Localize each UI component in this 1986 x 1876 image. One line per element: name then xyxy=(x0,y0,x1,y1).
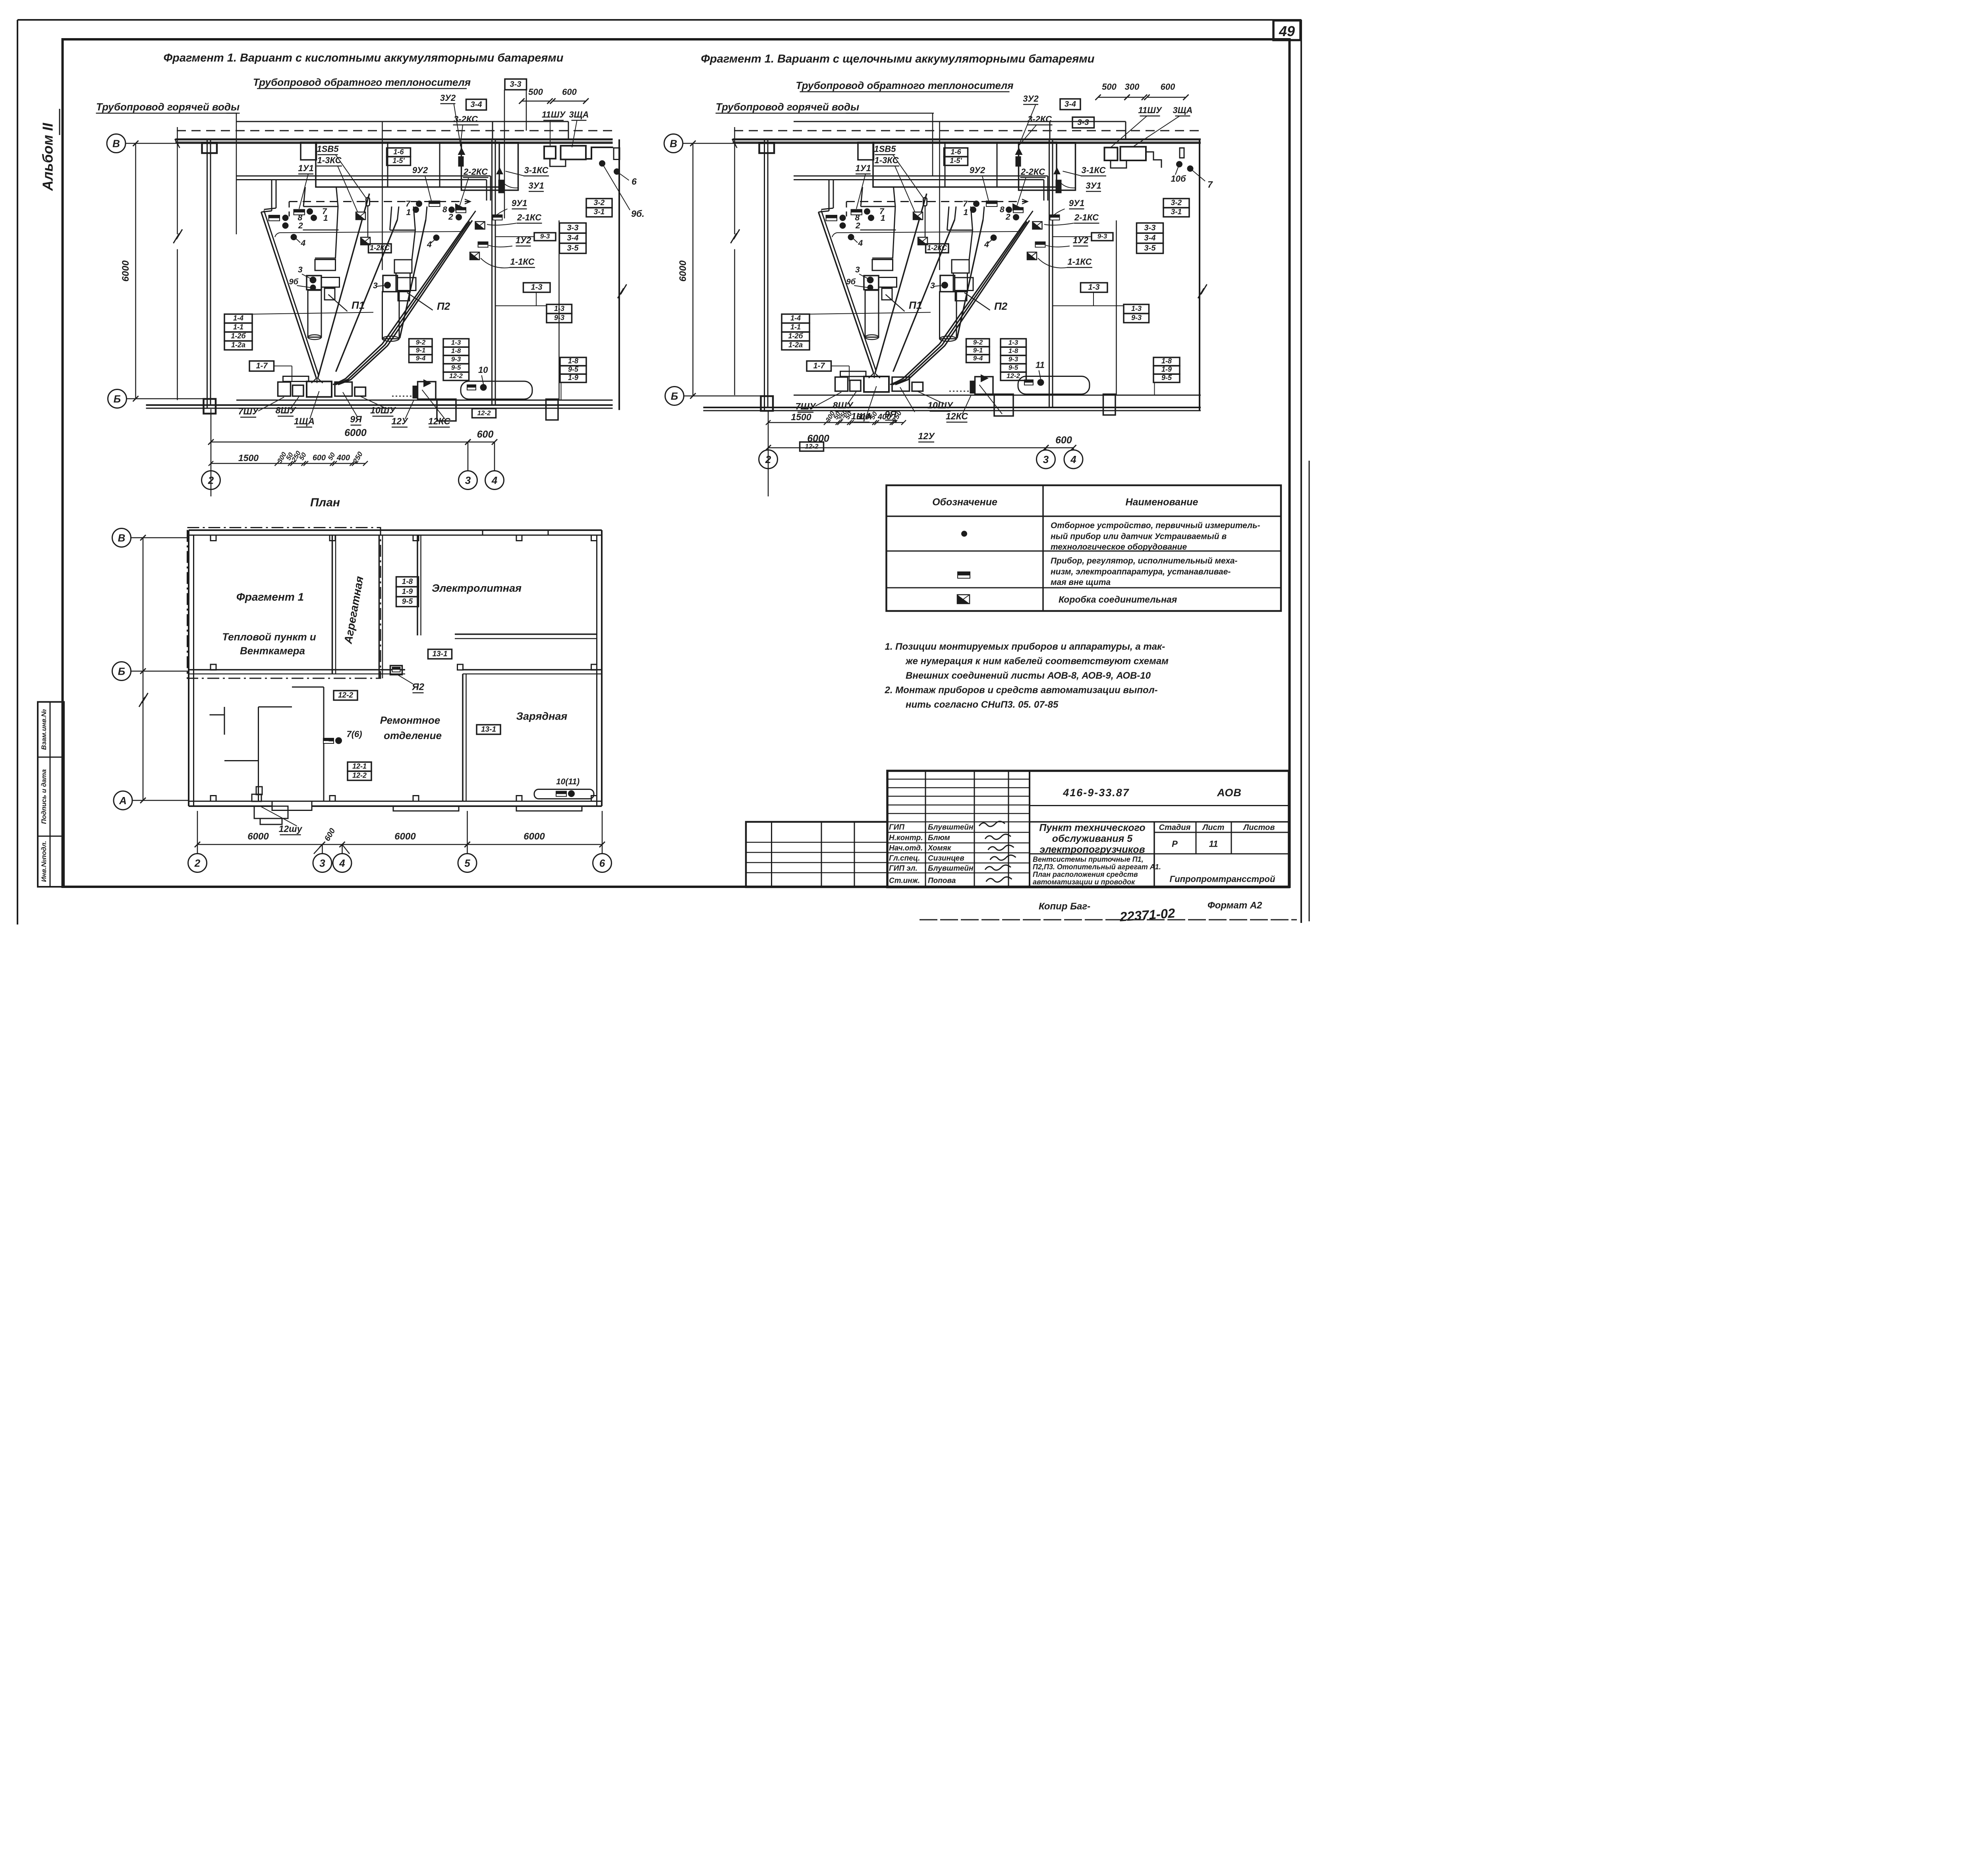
svg-text:Инв.№подл.: Инв.№подл. xyxy=(40,841,48,882)
left fragment: tank body xyxy=(461,381,532,399)
left fragment: P2 throat right xyxy=(413,207,415,230)
left fragment: P1 leader 9b xyxy=(297,286,311,288)
svg-text:1: 1 xyxy=(964,208,968,217)
right fragment: wallbox links xyxy=(1111,160,1126,168)
right fragment: leader 1SchA xyxy=(867,386,877,414)
left fragment: box 1-2KS xyxy=(369,244,392,253)
title block: grid col A xyxy=(924,771,927,887)
svg-text:600: 600 xyxy=(477,429,494,440)
left fragment: P1 duct xyxy=(315,260,336,271)
right fragment: wallbox 3SchA xyxy=(1121,147,1146,161)
svg-text:9-5: 9-5 xyxy=(402,598,413,606)
left fragment: pill 1SB5 xyxy=(366,198,370,206)
left fragment: tri 3-1KS dev xyxy=(496,167,503,174)
left fragment: bottom wall line2 xyxy=(146,407,613,409)
left fragment: P2 cylinder xyxy=(383,292,400,339)
left fragment: leader 4b xyxy=(430,240,435,244)
right fragment: leader 1U2 xyxy=(1046,245,1070,247)
left fragment: right dot1 xyxy=(599,160,605,167)
right fragment: P1 throat left xyxy=(861,187,863,207)
svg-text:7ШУ: 7ШУ xyxy=(796,401,817,411)
svg-text:1-3: 1-3 xyxy=(451,339,461,346)
svg-text:1У1: 1У1 xyxy=(298,163,313,173)
right fragment: wall step right xyxy=(1146,152,1161,168)
title block: grid col D xyxy=(1028,771,1031,887)
floor plan: axis V line xyxy=(131,537,189,539)
floor plan: box 189, 1-9, 9-5 xyxy=(396,577,419,587)
svg-text:600: 600 xyxy=(1161,82,1175,92)
svg-text:Ст.инж.: Ст.инж. xyxy=(889,877,920,885)
right fragment: hot water pipe2 xyxy=(794,179,1044,181)
right fragment: right leader2 xyxy=(1190,169,1206,181)
floor plan: partition v1 xyxy=(257,707,260,801)
right fragment: diag top ext xyxy=(1024,211,1033,223)
svg-text:8ШУ: 8ШУ xyxy=(276,405,297,415)
svg-text:1-6: 1-6 xyxy=(950,148,961,156)
svg-text:400: 400 xyxy=(877,413,891,421)
svg-text:12-2: 12-2 xyxy=(477,409,491,417)
svg-text:3: 3 xyxy=(1043,454,1049,465)
svg-text:11: 11 xyxy=(1036,360,1045,370)
svg-text:12-2: 12-2 xyxy=(449,372,463,380)
floor plan: column marks bott xyxy=(211,796,216,801)
left fragment: equip 10ShU xyxy=(355,387,366,396)
left fragment dims: dim detail line xyxy=(211,463,365,465)
right fragment: bar 9U2dev xyxy=(986,201,997,207)
inner drawing frame xyxy=(63,39,1290,887)
right fragment dims: axis 4 line xyxy=(1072,448,1074,450)
svg-text:План расположения средств: План расположения средств xyxy=(1033,870,1138,878)
svg-text:1-3: 1-3 xyxy=(1008,339,1018,346)
svg-text:12У: 12У xyxy=(918,431,935,441)
right fragment: return pipe xyxy=(794,120,1126,123)
floor plan: top wall outer xyxy=(189,529,602,532)
left fragment: right leader2 xyxy=(617,172,629,180)
svg-text:3У2: 3У2 xyxy=(1023,94,1039,104)
svg-text:8ШУ: 8ШУ xyxy=(833,400,854,411)
svg-text:2: 2 xyxy=(298,221,303,230)
svg-text:технологическое оборудование: технологическое оборудование xyxy=(1051,542,1187,552)
svg-text:1-8: 1-8 xyxy=(402,578,413,586)
left fragment: P1 flange1 xyxy=(303,229,339,231)
svg-text:400: 400 xyxy=(336,454,350,462)
left fragment: P1 step xyxy=(325,288,335,300)
svg-text:3-2: 3-2 xyxy=(594,199,605,207)
svg-text:Обозначение: Обозначение xyxy=(932,497,997,508)
left fragment: leader 9U2 xyxy=(425,176,431,201)
right fragment: equip 1SchA xyxy=(864,376,889,392)
left fragment: bottom wall line1 xyxy=(146,403,613,407)
svg-text:1-2а: 1-2а xyxy=(788,341,803,349)
right fragment: leader 12U xyxy=(962,395,972,414)
floor plan: partition stub1 xyxy=(210,714,225,716)
left fragment: box 1-3 mid xyxy=(524,283,551,292)
left fragment: zone arrow xyxy=(465,199,470,204)
svg-text:9-4: 9-4 xyxy=(416,355,426,362)
left fragment: box 1-6/1-5 xyxy=(387,148,411,157)
left fragment: diag top ext xyxy=(467,211,476,223)
right fragment: axis4 wall line2 xyxy=(1051,139,1054,407)
svg-text:4: 4 xyxy=(858,239,863,248)
left fragment: P2 V left arm xyxy=(336,220,398,372)
svg-text:4: 4 xyxy=(984,240,989,249)
right fragment: dot b2 xyxy=(1013,214,1019,220)
right fragment: unit divider2 xyxy=(944,142,946,187)
right fragment: P2 cyl bottom xyxy=(940,336,956,342)
svg-text:4: 4 xyxy=(491,475,498,486)
right fragment: P2 throat left xyxy=(947,207,949,230)
right fragment: leader 12KS xyxy=(979,385,1003,414)
right fragment: leader 11ShU xyxy=(1111,116,1147,148)
right fragment: box 14 leader xyxy=(809,313,931,315)
right fragment: P1 flange1 xyxy=(860,229,896,231)
right fragment: P2 duct xyxy=(952,260,969,273)
svg-text:Тепловой пункт и: Тепловой пункт и xyxy=(222,631,316,643)
right fragment: box 3-4 top xyxy=(1060,99,1080,110)
title block: grid row 1 xyxy=(887,787,1030,789)
right fragment: P2 V left ext xyxy=(955,207,956,220)
left fragment: return pipe xyxy=(236,120,568,123)
left fragment: dashed zone line xyxy=(289,201,470,203)
left fragment: leader 1-3KS xyxy=(338,166,357,212)
floor plan: fragment boundary xyxy=(187,528,381,679)
svg-text:7: 7 xyxy=(406,199,411,208)
left fragment: leader 9-3 xyxy=(496,236,535,237)
svg-text:Ремонтное: Ремонтное xyxy=(380,714,440,726)
svg-text:3-1КС: 3-1КС xyxy=(524,165,549,175)
svg-text:1-3: 1-3 xyxy=(1131,305,1142,313)
left fragment: bar a7 xyxy=(294,210,305,215)
title block: signature 2 xyxy=(988,845,1014,850)
right fragment: box 9-3 xyxy=(1092,233,1113,241)
right fragment dims: axis 2 circle xyxy=(759,450,778,469)
svg-text:2-2КС: 2-2КС xyxy=(1020,167,1045,177)
left fragment: dot a7 xyxy=(307,208,313,215)
left fragment: equip 9Ya xyxy=(335,382,352,396)
left fragment: dim line tr xyxy=(522,100,550,102)
right fragment: P1 leader 9b xyxy=(854,286,868,288)
floor plan: axis drop5 xyxy=(466,811,468,854)
svg-text:7: 7 xyxy=(963,199,968,208)
right fragment: P1 leader 3 xyxy=(859,274,867,278)
right fragment: hot water drop3 xyxy=(1043,180,1045,201)
right fragment: dot b7 xyxy=(973,201,979,207)
left fragment: wall axis vertical lower xyxy=(176,249,178,400)
right fragment: bottom wall line1 xyxy=(703,406,1201,409)
svg-text:1-8: 1-8 xyxy=(568,357,578,365)
right fragment: dot a7 xyxy=(864,208,870,215)
right fragment: leader 3-1KS xyxy=(1063,171,1082,176)
title block: right top divider xyxy=(1030,805,1289,807)
floor plan: wall zaryad left xyxy=(462,674,464,801)
svg-text:9-1: 9-1 xyxy=(416,347,426,354)
right fragment: vert dim tick top xyxy=(690,141,696,146)
floor plan: wall elektro left xyxy=(416,535,419,636)
floor plan: partition v3 xyxy=(223,707,226,735)
title block: signature 3 xyxy=(990,855,1016,860)
title block: grid row 3 xyxy=(887,804,1030,806)
right fragment: wall axis vertical xyxy=(734,127,736,234)
right fragment: P2 V left arm xyxy=(893,220,955,372)
right fragment: P1 cone xyxy=(861,207,895,258)
left fragment: P2 step xyxy=(398,292,410,301)
svg-text:500: 500 xyxy=(1102,82,1117,92)
svg-text:6: 6 xyxy=(632,176,637,187)
left fragment: P2 V left ext xyxy=(398,207,399,220)
right fragment: return pipe drop xyxy=(1124,122,1127,139)
left fragment: hot water drop3 xyxy=(485,180,488,201)
right fragment: P1 flange2 xyxy=(872,259,893,261)
svg-text:6000: 6000 xyxy=(247,831,269,842)
left fragment: equipment base line xyxy=(236,399,613,401)
svg-text:Хомяк: Хомяк xyxy=(927,844,952,853)
left fragment: P1 apex fan2 xyxy=(316,378,318,383)
right fragment: dot b4 xyxy=(991,235,997,241)
left fragment: bar 9U1dev xyxy=(493,215,502,220)
right fragment: box 12-2 low xyxy=(800,442,824,451)
svg-text:Б: Б xyxy=(118,666,125,677)
right fragment: bar 1U2dev xyxy=(1036,242,1045,247)
svg-text:13-1: 13-1 xyxy=(432,650,447,658)
floor plan: box 12-1/12-2 xyxy=(348,762,371,771)
left fragment: box 3-3 drop xyxy=(504,90,506,218)
svg-text:Попова: Попова xyxy=(928,877,956,885)
left fragment: P2 leader 3 xyxy=(377,286,384,286)
floor plan: axis B line xyxy=(131,670,189,672)
title block: small tbl row xyxy=(746,872,887,874)
right fragment: box 189519 xyxy=(1153,357,1180,366)
svg-text:11ШУ: 11ШУ xyxy=(542,110,566,120)
left fragment dims: axis 2 circle xyxy=(202,471,220,490)
right fragment: dot b1 xyxy=(970,207,976,213)
right fragment: box 1-2KS xyxy=(926,244,949,253)
floor plan: 12shu leader xyxy=(260,806,297,826)
album underline xyxy=(58,109,61,135)
right fragment: P2 leader 3 xyxy=(934,286,941,286)
svg-text:1-8: 1-8 xyxy=(1008,347,1018,355)
svg-text:3-1: 3-1 xyxy=(594,208,605,216)
left fragment: env e2 xyxy=(361,237,370,245)
svg-text:6000: 6000 xyxy=(344,427,367,438)
floor plan: plan circ4 xyxy=(333,854,352,872)
title block: signature 4 xyxy=(985,865,1011,870)
left fragment: diag duct line0 xyxy=(333,223,467,385)
floor plan: tick B xyxy=(140,668,146,674)
left fragment: leader 10ShU xyxy=(360,396,387,409)
title block: small tbl row xyxy=(746,862,887,864)
svg-text:9-3: 9-3 xyxy=(540,233,550,240)
floor plan: column marks top xyxy=(211,535,216,541)
svg-text:4: 4 xyxy=(1070,454,1076,465)
left fragment dims: axis 3 line xyxy=(467,442,469,471)
floor plan: tick V xyxy=(140,535,146,540)
left fragment: wallbox 11ShU xyxy=(544,147,556,159)
right fragment: equip 7ShU xyxy=(835,377,848,392)
floor plan: axis drop2 xyxy=(197,811,199,854)
svg-text:12КС: 12КС xyxy=(428,416,450,427)
svg-text:1-7: 1-7 xyxy=(256,362,268,371)
right fragment: box 333435 xyxy=(1137,223,1163,234)
floor plan: wall B axis right xyxy=(463,668,602,671)
svg-text:10(11): 10(11) xyxy=(556,777,580,786)
left fragment: dot b4 xyxy=(433,235,440,241)
right fragment: pill line xyxy=(924,206,926,237)
svg-text:ГИП эл.: ГИП эл. xyxy=(889,865,918,873)
title block: sig row 4 xyxy=(887,872,1030,874)
left fragment: P1 V left arm a xyxy=(261,212,317,378)
right fragment: box 3-2/3-1 xyxy=(1163,199,1189,208)
svg-text:1-2б: 1-2б xyxy=(231,332,246,340)
title block: small tbl col1 xyxy=(771,822,773,888)
svg-text:300: 300 xyxy=(1125,82,1140,92)
svg-text:Подпись и дата: Подпись и дата xyxy=(40,769,48,824)
left fragment: bar a8 xyxy=(269,215,280,221)
left fragment: column box top xyxy=(202,143,217,153)
title block: grid row 5 xyxy=(887,821,1030,823)
left fragment: tank dot xyxy=(480,384,487,391)
left fragment: P2 lower duct xyxy=(396,273,410,292)
right fragment: top wall line2 xyxy=(733,141,1201,143)
svg-text:1: 1 xyxy=(323,214,328,223)
svg-text:Сизинцев: Сизинцев xyxy=(928,854,964,863)
left fragment: box 3-3 top xyxy=(505,79,527,90)
left fragment: leader 3SchA xyxy=(572,120,577,147)
svg-text:1-3: 1-3 xyxy=(531,283,543,292)
svg-text:11ШУ: 11ШУ xyxy=(1138,105,1162,115)
floor plan: box 13-1 b xyxy=(477,725,500,734)
right fragment: dim line tr xyxy=(1098,97,1127,98)
svg-text:9У1: 9У1 xyxy=(1069,198,1084,208)
svg-text:2: 2 xyxy=(855,221,860,230)
left fragment: leader 3U1 xyxy=(502,182,518,188)
svg-text:9У1: 9У1 xyxy=(512,198,527,208)
left fragment: bracket hook R xyxy=(461,227,466,232)
svg-text:1-3КС: 1-3КС xyxy=(875,155,899,165)
left fragment: P1 cyl bottom xyxy=(308,335,321,340)
left fragment: leader 9Ya xyxy=(343,392,357,417)
floor plan: partition h2 xyxy=(224,760,259,762)
svg-text:6000: 6000 xyxy=(120,260,131,282)
floor plan: 12shu device xyxy=(252,794,261,801)
left fragment: P2 V right arm xyxy=(400,220,426,338)
right fragment: vert dim line 6000 xyxy=(692,143,694,396)
left fragment: return pipe drop xyxy=(567,122,570,139)
right fragment: bracket line xyxy=(837,232,1018,233)
left fragment dims: dim 6000 line xyxy=(211,441,468,443)
left fragment: box 3-4 top xyxy=(466,99,487,110)
right fragment: right dot1 xyxy=(1176,161,1182,168)
left fragment: column box bottom xyxy=(204,399,216,414)
left fragment: bar 3-2KS dev xyxy=(459,157,463,166)
legend: table frame xyxy=(887,485,1281,611)
svg-text:6000: 6000 xyxy=(807,433,829,444)
floor plan: axis V circle xyxy=(112,529,131,547)
left fragment: equip 12 box xyxy=(418,382,436,399)
svg-text:9Я: 9Я xyxy=(350,414,362,425)
floor plan: axis A circle xyxy=(114,791,132,810)
floor plan: Ya2 leader xyxy=(398,675,413,684)
svg-text:1500: 1500 xyxy=(238,453,259,463)
svg-text:Венткамера: Венткамера xyxy=(240,645,305,657)
left fragment: equip 12 tri xyxy=(423,379,431,387)
svg-text:3У1: 3У1 xyxy=(528,181,544,191)
right fragment: tank bar xyxy=(1024,380,1033,385)
page outer border top xyxy=(17,18,1301,21)
svg-text:Формат А2: Формат А2 xyxy=(1207,900,1262,911)
right fragment: right dot2 xyxy=(1187,166,1194,172)
left fragment: hot water pipe1 xyxy=(236,175,491,177)
svg-text:Б: Б xyxy=(671,390,678,402)
svg-text:600: 600 xyxy=(313,454,326,462)
left fragment: box 12-2 low xyxy=(472,409,496,418)
svg-text:В: В xyxy=(670,138,677,150)
right fragment: leader 9U1 xyxy=(1053,209,1065,216)
left fragment: dot a4 xyxy=(291,234,297,240)
left fragment: box 1-3/9-3 xyxy=(547,305,572,314)
left fragment: P1 V right arm xyxy=(318,194,369,378)
right fragment: P1 step xyxy=(882,288,892,300)
svg-text:9-5: 9-5 xyxy=(1161,374,1172,382)
svg-text:Гл.спец.: Гл.спец. xyxy=(889,854,920,863)
left fragment: roof dashed line xyxy=(177,129,613,132)
right fragment: vert dim tick bot xyxy=(690,393,696,399)
left fragment: box 1-7 leader xyxy=(274,365,292,367)
svg-text:2-1КС: 2-1КС xyxy=(517,212,542,222)
svg-text:2: 2 xyxy=(448,212,453,222)
svg-text:6: 6 xyxy=(599,857,605,869)
left fragment: dot b2 xyxy=(456,214,462,220)
left fragment: P1 dot 3 xyxy=(310,277,317,284)
left fragment: axis V circle xyxy=(107,134,126,153)
left fragment: dashed zone drop L xyxy=(288,202,290,217)
title block: grid row 4 xyxy=(887,813,1030,814)
svg-text:9-5: 9-5 xyxy=(451,364,461,371)
right fragment: leader 9U2 xyxy=(982,176,989,201)
right fragment: box 14stack xyxy=(782,314,809,323)
right fragment: leader 2-1KS xyxy=(1044,223,1074,225)
right fragment: leader 3-2KS xyxy=(1018,125,1037,146)
svg-text:3У1: 3У1 xyxy=(1086,181,1101,191)
svg-text:1У1: 1У1 xyxy=(855,163,871,173)
legend: sym env xyxy=(957,595,970,604)
left fragment: right dot2 xyxy=(614,168,620,175)
margin strip divider row2 xyxy=(38,835,64,838)
left fragment: leader 3-2KS xyxy=(460,125,463,146)
svg-text:2: 2 xyxy=(1005,212,1010,222)
svg-text:Я2: Я2 xyxy=(411,682,424,693)
title block: sig row 2 xyxy=(887,852,1030,854)
svg-text:3-3: 3-3 xyxy=(1078,118,1089,127)
left fragment: P1 apex fan3 xyxy=(318,378,323,383)
right fragment: unit divider1 xyxy=(939,122,941,270)
floor plan: wall elektro bottom xyxy=(455,633,597,636)
right fragment: env e1 xyxy=(913,212,923,220)
svg-text:3У2: 3У2 xyxy=(440,93,456,103)
title block: name cell divider xyxy=(1030,820,1289,823)
svg-text:9-2: 9-2 xyxy=(416,339,426,346)
svg-text:9У2: 9У2 xyxy=(970,165,985,175)
left fragment: equip 8ShU xyxy=(293,385,304,396)
left fragment: leader 9U1 xyxy=(496,209,508,216)
left fragment: unit outer box xyxy=(316,142,499,187)
svg-text:9-3: 9-3 xyxy=(1097,233,1107,240)
svg-text:1SB5: 1SB5 xyxy=(874,144,896,154)
svg-text:3-1: 3-1 xyxy=(1171,208,1182,216)
right fragment: branch drop xyxy=(1049,122,1051,139)
right fragment: P1 duct xyxy=(872,260,893,271)
title block: sig row 1 xyxy=(887,842,1030,844)
left fragment: leader 7ShU xyxy=(258,397,284,411)
